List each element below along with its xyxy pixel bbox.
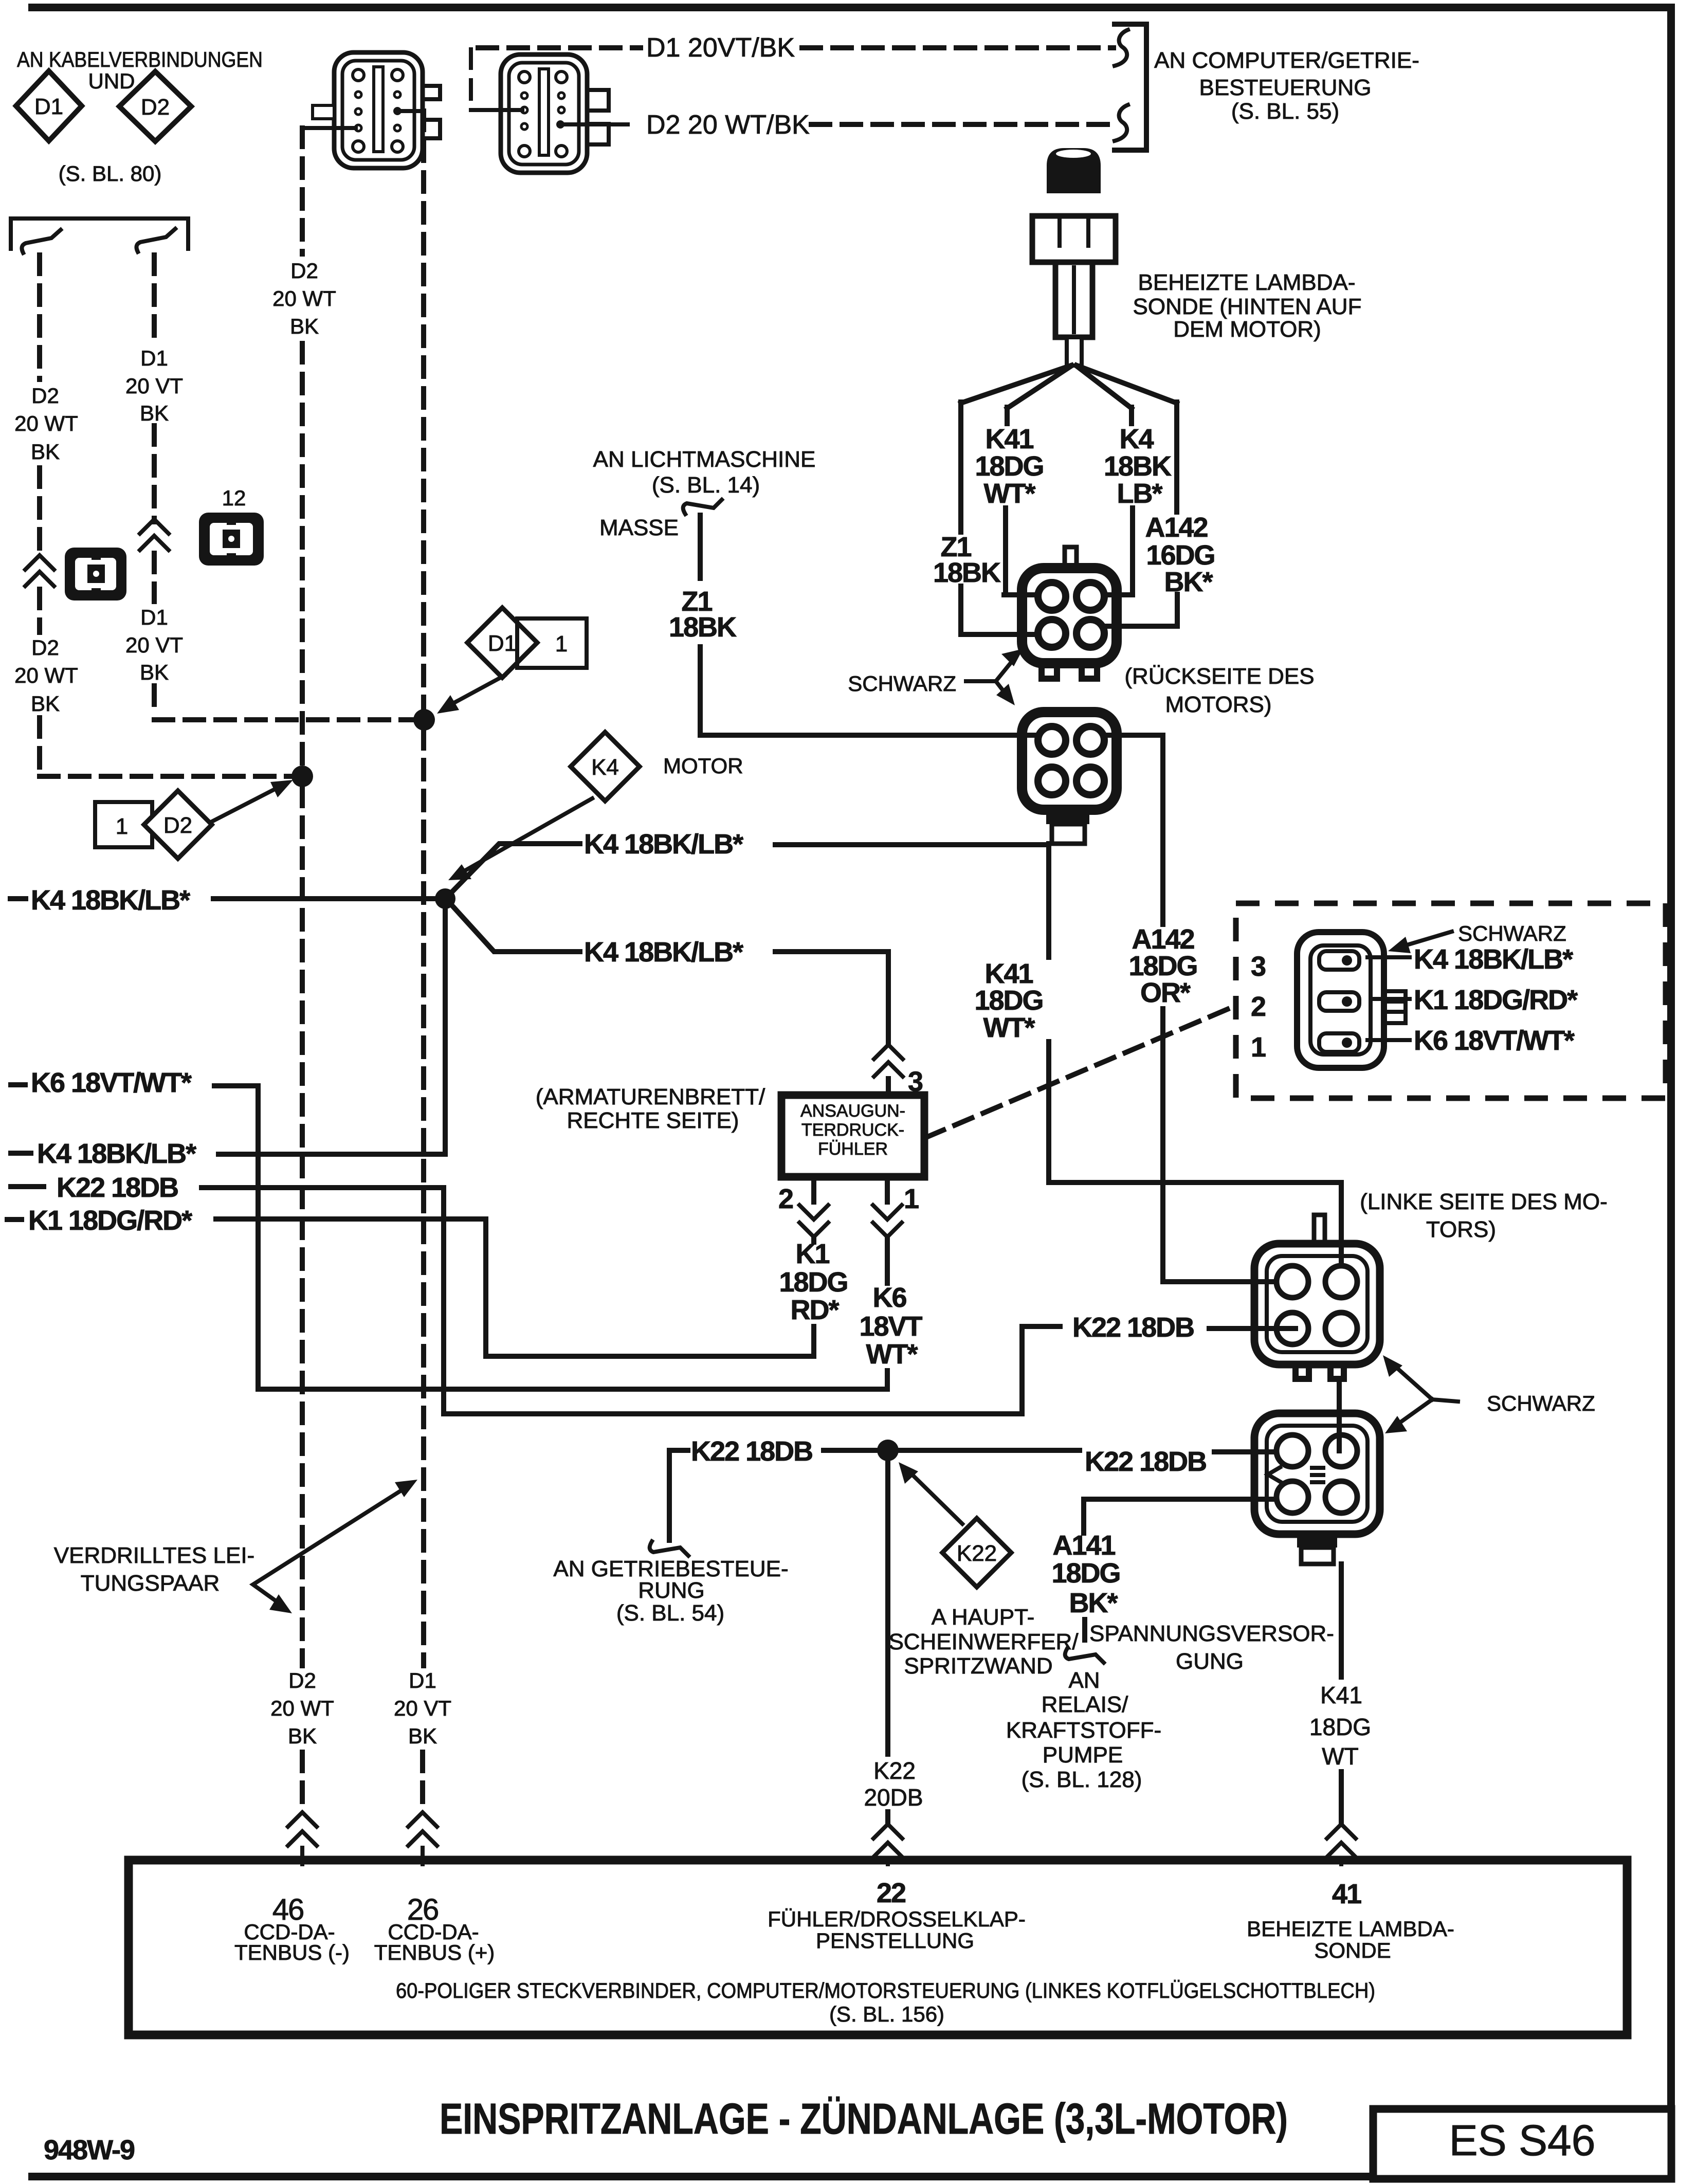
svg-text:BEHEIZTE LAMBDA-: BEHEIZTE LAMBDA- — [1247, 1917, 1454, 1941]
svg-text:SONDE: SONDE — [1314, 1938, 1391, 1962]
svg-text:DEM MOTOR): DEM MOTOR) — [1173, 317, 1321, 342]
svg-text:BK: BK — [288, 1724, 317, 1748]
svg-text:BK: BK — [140, 660, 169, 684]
svg-text:A142: A142 — [1132, 924, 1194, 955]
svg-text:K6 18VT/WT*: K6 18VT/WT* — [1414, 1025, 1575, 1056]
svg-text:TERDRUCK-: TERDRUCK- — [801, 1120, 904, 1140]
svg-text:TENBUS (-): TENBUS (-) — [234, 1940, 350, 1964]
svg-text:18VT: 18VT — [859, 1311, 922, 1342]
svg-text:RECHTE SEITE): RECHTE SEITE) — [567, 1108, 739, 1133]
svg-text:D2: D2 — [31, 635, 59, 660]
svg-text:RD*: RD* — [790, 1295, 839, 1325]
svg-text:BK*: BK* — [1164, 567, 1213, 597]
svg-text:A141: A141 — [1052, 1530, 1115, 1561]
svg-text:D1: D1 — [409, 1668, 436, 1692]
svg-text:ES S46: ES S46 — [1449, 2116, 1596, 2164]
svg-text:BK: BK — [31, 691, 60, 716]
svg-text:SPANNUNGSVERSOR-: SPANNUNGSVERSOR- — [1089, 1621, 1334, 1646]
svg-text:MOTORS): MOTORS) — [1165, 692, 1272, 717]
svg-text:OR*: OR* — [1140, 977, 1191, 1008]
svg-text:TUNGSPAAR: TUNGSPAAR — [81, 1571, 220, 1596]
svg-text:41: 41 — [1332, 1879, 1361, 1909]
svg-text:K4: K4 — [591, 755, 619, 780]
svg-text:MASSE: MASSE — [599, 515, 679, 540]
svg-text:(S. BL. 156): (S. BL. 156) — [829, 2002, 944, 2026]
svg-text:(S. BL. 55): (S. BL. 55) — [1231, 99, 1339, 124]
svg-text:K22 18DB: K22 18DB — [1085, 1446, 1206, 1477]
svg-text:18DG: 18DG — [1051, 1558, 1120, 1589]
svg-text:18DG: 18DG — [779, 1267, 847, 1298]
svg-text:K4 18BK/LB*: K4 18BK/LB* — [37, 1138, 196, 1169]
svg-text:D2 20 WT/BK: D2 20 WT/BK — [646, 110, 810, 140]
svg-text:K4 18BK/LB*: K4 18BK/LB* — [584, 937, 743, 968]
svg-text:1: 1 — [555, 631, 568, 657]
svg-text:D1: D1 — [34, 94, 63, 119]
svg-text:(S. BL. 128): (S. BL. 128) — [1022, 1767, 1142, 1792]
svg-text:D2: D2 — [31, 384, 59, 408]
svg-text:D2: D2 — [163, 813, 192, 838]
svg-text:16DG: 16DG — [1146, 540, 1214, 571]
svg-text:2: 2 — [778, 1184, 793, 1214]
svg-text:(S. BL. 14): (S. BL. 14) — [652, 472, 760, 498]
svg-text:18BK: 18BK — [669, 612, 737, 643]
svg-text:PENSTELLUNG: PENSTELLUNG — [816, 1928, 974, 1953]
svg-text:UND: UND — [88, 69, 135, 93]
svg-text:BK: BK — [408, 1724, 437, 1748]
svg-text:SCHEINWERFER/: SCHEINWERFER/ — [888, 1629, 1079, 1654]
svg-text:EINSPRITZANLAGE - ZÜNDANLAGE (: EINSPRITZANLAGE - ZÜNDANLAGE (3,3L-MOTOR… — [440, 2095, 1288, 2143]
svg-text:A HAUPT-: A HAUPT- — [932, 1605, 1035, 1630]
svg-text:K6 18VT/WT*: K6 18VT/WT* — [31, 1067, 192, 1098]
svg-text:12: 12 — [222, 486, 246, 510]
svg-text:K22: K22 — [957, 1541, 997, 1566]
svg-text:SCHWARZ: SCHWARZ — [1458, 921, 1566, 945]
svg-text:K22 18DB: K22 18DB — [1072, 1312, 1194, 1343]
svg-text:20DB: 20DB — [864, 1784, 923, 1811]
svg-text:D1: D1 — [140, 605, 168, 629]
svg-text:D2: D2 — [290, 259, 318, 283]
svg-text:D2: D2 — [141, 95, 170, 120]
svg-text:(LINKE SEITE DES MO-: (LINKE SEITE DES MO- — [1360, 1189, 1608, 1214]
svg-text:K22: K22 — [873, 1757, 916, 1784]
svg-text:AN LICHTMASCHINE: AN LICHTMASCHINE — [593, 447, 816, 472]
svg-text:WT: WT — [1322, 1743, 1359, 1770]
svg-text:BESTEUERUNG: BESTEUERUNG — [1199, 75, 1372, 100]
svg-text:MOTOR: MOTOR — [663, 754, 743, 778]
svg-text:AN COMPUTER/GETRIE-: AN COMPUTER/GETRIE- — [1154, 48, 1419, 73]
svg-text:D2: D2 — [288, 1668, 316, 1692]
svg-text:18DG: 18DG — [1309, 1714, 1371, 1740]
svg-text:(S. BL. 54): (S. BL. 54) — [616, 1600, 724, 1626]
svg-text:PUMPE: PUMPE — [1043, 1742, 1123, 1768]
svg-text:18BK: 18BK — [1104, 451, 1172, 482]
svg-text:K41: K41 — [984, 958, 1033, 989]
svg-text:K22 18DB: K22 18DB — [691, 1436, 812, 1467]
svg-text:VERDRILLTES LEI-: VERDRILLTES LEI- — [54, 1543, 254, 1568]
svg-text:BK: BK — [31, 440, 60, 464]
svg-text:KRAFTSTOFF-: KRAFTSTOFF- — [1006, 1718, 1161, 1743]
svg-text:20 VT: 20 VT — [394, 1696, 451, 1720]
svg-text:K6: K6 — [872, 1282, 906, 1313]
svg-text:K4 18BK/LB*: K4 18BK/LB* — [584, 829, 743, 860]
svg-text:20 WT: 20 WT — [14, 663, 78, 687]
svg-text:FÜHLER/DROSSELKLAP-: FÜHLER/DROSSELKLAP- — [768, 1907, 1026, 1931]
svg-text:18DG: 18DG — [1128, 951, 1197, 981]
svg-text:D1: D1 — [140, 346, 168, 370]
svg-text:AN KABELVERBINDUNGEN: AN KABELVERBINDUNGEN — [17, 47, 263, 71]
svg-text:3: 3 — [1251, 951, 1266, 982]
svg-text:(ARMATURENBRETT/: (ARMATURENBRETT/ — [536, 1084, 765, 1109]
svg-text:20 VT: 20 VT — [125, 633, 183, 657]
svg-text:SONDE (HINTEN AUF: SONDE (HINTEN AUF — [1133, 294, 1362, 319]
svg-text:WT*: WT* — [984, 478, 1036, 509]
svg-text:(S. BL. 80): (S. BL. 80) — [59, 161, 162, 186]
svg-text:BK: BK — [140, 401, 169, 425]
svg-text:SPRITZWAND: SPRITZWAND — [904, 1653, 1052, 1679]
svg-text:SCHWARZ: SCHWARZ — [848, 671, 956, 696]
svg-text:20 WT: 20 WT — [270, 1696, 334, 1720]
svg-text:ANSAUGUN-: ANSAUGUN- — [800, 1101, 905, 1121]
svg-text:K4 18BK/LB*: K4 18BK/LB* — [31, 885, 190, 916]
svg-text:D1 20VT/BK: D1 20VT/BK — [646, 33, 795, 63]
svg-text:D1: D1 — [488, 631, 517, 656]
svg-text:1: 1 — [116, 814, 128, 839]
svg-text:K4 18BK/LB*: K4 18BK/LB* — [1414, 944, 1573, 975]
svg-text:2: 2 — [1251, 991, 1265, 1022]
svg-text:FÜHLER: FÜHLER — [818, 1139, 888, 1159]
svg-text:3: 3 — [908, 1066, 923, 1097]
svg-text:K41: K41 — [1320, 1682, 1362, 1708]
svg-text:K22 18DB: K22 18DB — [57, 1172, 178, 1203]
svg-text:RUNG: RUNG — [638, 1578, 705, 1603]
svg-text:SCHWARZ: SCHWARZ — [1487, 1391, 1595, 1415]
svg-text:WT*: WT* — [983, 1012, 1035, 1043]
svg-text:20 WT: 20 WT — [14, 411, 78, 435]
svg-text:RELAIS/: RELAIS/ — [1042, 1692, 1129, 1717]
svg-text:TORS): TORS) — [1426, 1217, 1496, 1242]
svg-text:22: 22 — [877, 1878, 905, 1908]
svg-text:K1 18DG/RD*: K1 18DG/RD* — [28, 1205, 192, 1236]
svg-text:K1 18DG/RD*: K1 18DG/RD* — [1414, 985, 1578, 1015]
svg-text:1: 1 — [904, 1184, 919, 1214]
svg-text:A142: A142 — [1145, 512, 1207, 543]
svg-text:18DG: 18DG — [975, 451, 1043, 482]
svg-text:WT*: WT* — [866, 1339, 918, 1370]
svg-text:20 VT: 20 VT — [125, 374, 183, 398]
svg-text:K41: K41 — [985, 424, 1033, 454]
svg-text:(RÜCKSEITE DES: (RÜCKSEITE DES — [1124, 664, 1314, 689]
svg-text:BK: BK — [290, 314, 319, 338]
svg-text:GUNG: GUNG — [1176, 1649, 1244, 1674]
svg-text:K4: K4 — [1119, 424, 1154, 454]
svg-text:BEHEIZTE LAMBDA-: BEHEIZTE LAMBDA- — [1138, 270, 1356, 295]
svg-text:1: 1 — [1251, 1032, 1266, 1063]
svg-text:20 WT: 20 WT — [272, 286, 336, 311]
svg-text:TENBUS (+): TENBUS (+) — [374, 1940, 495, 1964]
svg-text:BK*: BK* — [1069, 1588, 1118, 1618]
svg-text:18BK: 18BK — [933, 557, 1001, 588]
svg-text:18DG: 18DG — [974, 985, 1043, 1016]
svg-text:948W-9: 948W-9 — [44, 2135, 135, 2165]
svg-text:AN: AN — [1068, 1668, 1100, 1693]
svg-text:K1: K1 — [795, 1239, 829, 1269]
svg-text:LB*: LB* — [1117, 478, 1163, 509]
svg-text:60-POLIGER STECKVERBINDER, COM: 60-POLIGER STECKVERBINDER, COMPUTER/MOTO… — [396, 1978, 1375, 2003]
